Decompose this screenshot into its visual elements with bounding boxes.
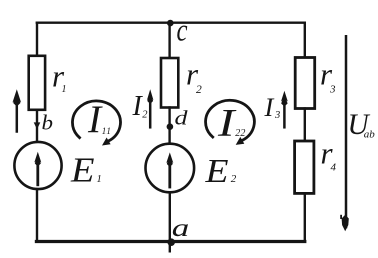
svg-text:4: 4	[331, 162, 337, 174]
svg-text:2: 2	[142, 110, 148, 121]
svg-text:I: I	[217, 102, 237, 145]
svg-text:I: I	[87, 97, 103, 141]
svg-text:1: 1	[62, 84, 67, 95]
svg-text:2: 2	[231, 173, 237, 185]
svg-text:E: E	[70, 151, 95, 190]
svg-text:a: a	[172, 215, 190, 242]
svg-text:3: 3	[274, 110, 280, 121]
svg-text:c: c	[177, 12, 188, 48]
svg-text:1: 1	[97, 174, 102, 185]
svg-text:3: 3	[329, 84, 336, 96]
svg-text:b: b	[42, 111, 54, 135]
svg-text:E: E	[204, 153, 228, 190]
svg-text:d: d	[175, 109, 188, 130]
svg-text:22: 22	[235, 128, 245, 139]
svg-text:2: 2	[196, 84, 202, 96]
svg-text:11: 11	[102, 126, 112, 136]
svg-text:I: I	[264, 92, 275, 122]
svg-text:ab: ab	[364, 128, 376, 140]
